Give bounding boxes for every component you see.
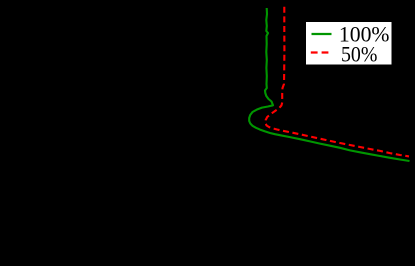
red curve 50% <box>265 7 409 157</box>
green curve 100% <box>249 8 409 161</box>
legend sample line 50% <box>311 51 329 53</box>
legend box <box>306 22 393 66</box>
legend sample line 100% <box>312 33 332 35</box>
svg-text:50%: 50% <box>341 43 377 67</box>
